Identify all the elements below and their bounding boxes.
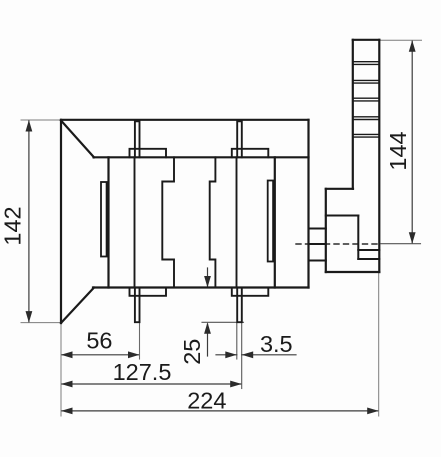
bracket 2 bottom: [232, 288, 268, 296]
shaft couplings: [309, 229, 326, 261]
bracket 1 top: [130, 149, 167, 158]
dashed centerline: [296, 243, 381, 245]
extension line x=139 (56 right): [139, 323, 141, 359]
left pad: [101, 182, 107, 257]
extension line 144 bottom (centerline extension): [381, 243, 421, 245]
fuse carrier 2: [210, 157, 216, 287]
left flange vertical: [60, 120, 62, 323]
dimension 25: up arrow below ext line: [207, 324, 209, 356]
svg-text:142: 142: [0, 206, 26, 245]
dimension line 56: [62, 354, 139, 356]
handle bar: [353, 40, 380, 272]
inner left edge: [107, 157, 109, 287]
extension line top-left (142 top): [21, 119, 61, 121]
right edge: [307, 120, 309, 288]
inner bottom line: [93, 286, 309, 288]
bolt 2 bottom: [237, 288, 242, 323]
flange diagonal bottom: [61, 288, 94, 324]
svg-text:144: 144: [385, 131, 411, 170]
flange diagonal top: [61, 121, 94, 158]
bolt 1 bottom: [135, 288, 140, 323]
svg-text:25: 25: [179, 339, 205, 365]
extension line x=378.7 (224 right): [378, 273, 380, 416]
divider: [274, 157, 276, 287]
svg-text:56: 56: [86, 328, 112, 354]
extension line x=237 (3.5 left edge): [236, 323, 238, 359]
bracket 2 top: [232, 149, 268, 158]
bolt 1 top: [135, 121, 140, 157]
extension line bottom-left (142 bottom): [21, 322, 62, 324]
main body outline: [61, 120, 309, 323]
extension line 144 top: [380, 39, 422, 41]
extension line y=322.3 under bolt2 (25 bottom): [202, 321, 244, 323]
bracket 1 bottom: [130, 288, 167, 296]
inner top line: [94, 156, 309, 158]
svg-text:127.5: 127.5: [113, 359, 172, 385]
dimension 25: down arrow above body bottom: [207, 268, 209, 286]
top cover edge: [61, 119, 309, 121]
fuse carrier 1: [162, 157, 174, 287]
extension line x=242 (127.5 right / bolt2 right): [241, 323, 243, 389]
extension line left vertical x=61 down to 224 line: [60, 323, 62, 416]
dimension line 142: [28, 121, 30, 322]
housing inner step: [326, 216, 380, 260]
dimension line 224: [62, 410, 378, 412]
svg-text:3.5: 3.5: [260, 331, 293, 357]
right pad: [268, 181, 273, 262]
dimension line 144: [411, 41, 413, 243]
dimension line 3.5: [216, 354, 237, 356]
bolt 2 top: [237, 121, 242, 157]
svg-text:224: 224: [187, 388, 226, 414]
handle housing: [326, 189, 380, 272]
bolt 1 inner line: [134, 157, 136, 287]
bolt 2 inner line: [236, 157, 238, 287]
handle bar stripes: [353, 62, 380, 137]
dimension line 127.5: [62, 383, 241, 385]
